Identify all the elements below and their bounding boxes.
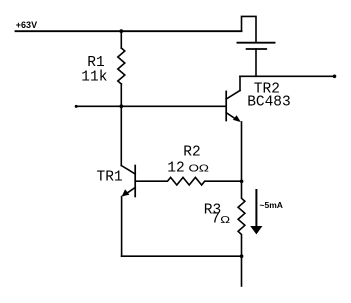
svg-text:7: 7 [211, 212, 220, 228]
wire bottom rail [122, 255, 242, 257]
junction base rail / R1 column [119, 104, 123, 108]
wire TR2 collector lead [239, 76, 241, 90]
wire bottom tail [241, 256, 243, 286]
svg-text:Ω: Ω [199, 162, 209, 174]
junction bottom rail / R3 column [240, 254, 244, 258]
svg-text:BC483: BC483 [247, 95, 291, 111]
wire TR1 emitter lead [121, 197, 123, 257]
svg-text:O: O [189, 162, 199, 174]
wire collector rail right [240, 75, 335, 77]
node stub end dot [75, 105, 78, 108]
transistor TR2 [226, 91, 241, 123]
wire TR2 emitter lead [241, 122, 243, 181]
transistor TR1 [121, 166, 135, 197]
wire R1 bottom lead [120, 84, 122, 106]
capacitor C1 [237, 43, 274, 49]
current arrow 5mA [250, 190, 262, 234]
wire capacitor bottom lead [255, 49, 257, 76]
svg-text:12: 12 [167, 160, 184, 176]
resistor R3 [238, 181, 245, 256]
svg-text:R1: R1 [87, 55, 104, 71]
resistor R1 [118, 48, 125, 84]
svg-text:R2: R2 [183, 145, 200, 161]
svg-text:~5mA: ~5mA [260, 200, 283, 210]
wire R1 top lead [120, 31, 122, 48]
junction top rail / R1 [119, 29, 123, 33]
svg-text:TR1: TR1 [97, 169, 123, 185]
svg-text:+63V: +63V [16, 20, 37, 30]
wire base rail to TR2 [76, 105, 226, 107]
svg-text:Ω: Ω [220, 213, 230, 225]
wire top supply rail [16, 30, 242, 32]
svg-text:11k: 11k [81, 70, 107, 86]
junction R2 / TR2 emitter column [240, 180, 244, 184]
wire TR1 collector lead [120, 106, 122, 165]
resistor R2 [135, 177, 241, 185]
node collector rail end dot [333, 75, 337, 79]
capacitor C1 top lead hook [242, 16, 257, 42]
